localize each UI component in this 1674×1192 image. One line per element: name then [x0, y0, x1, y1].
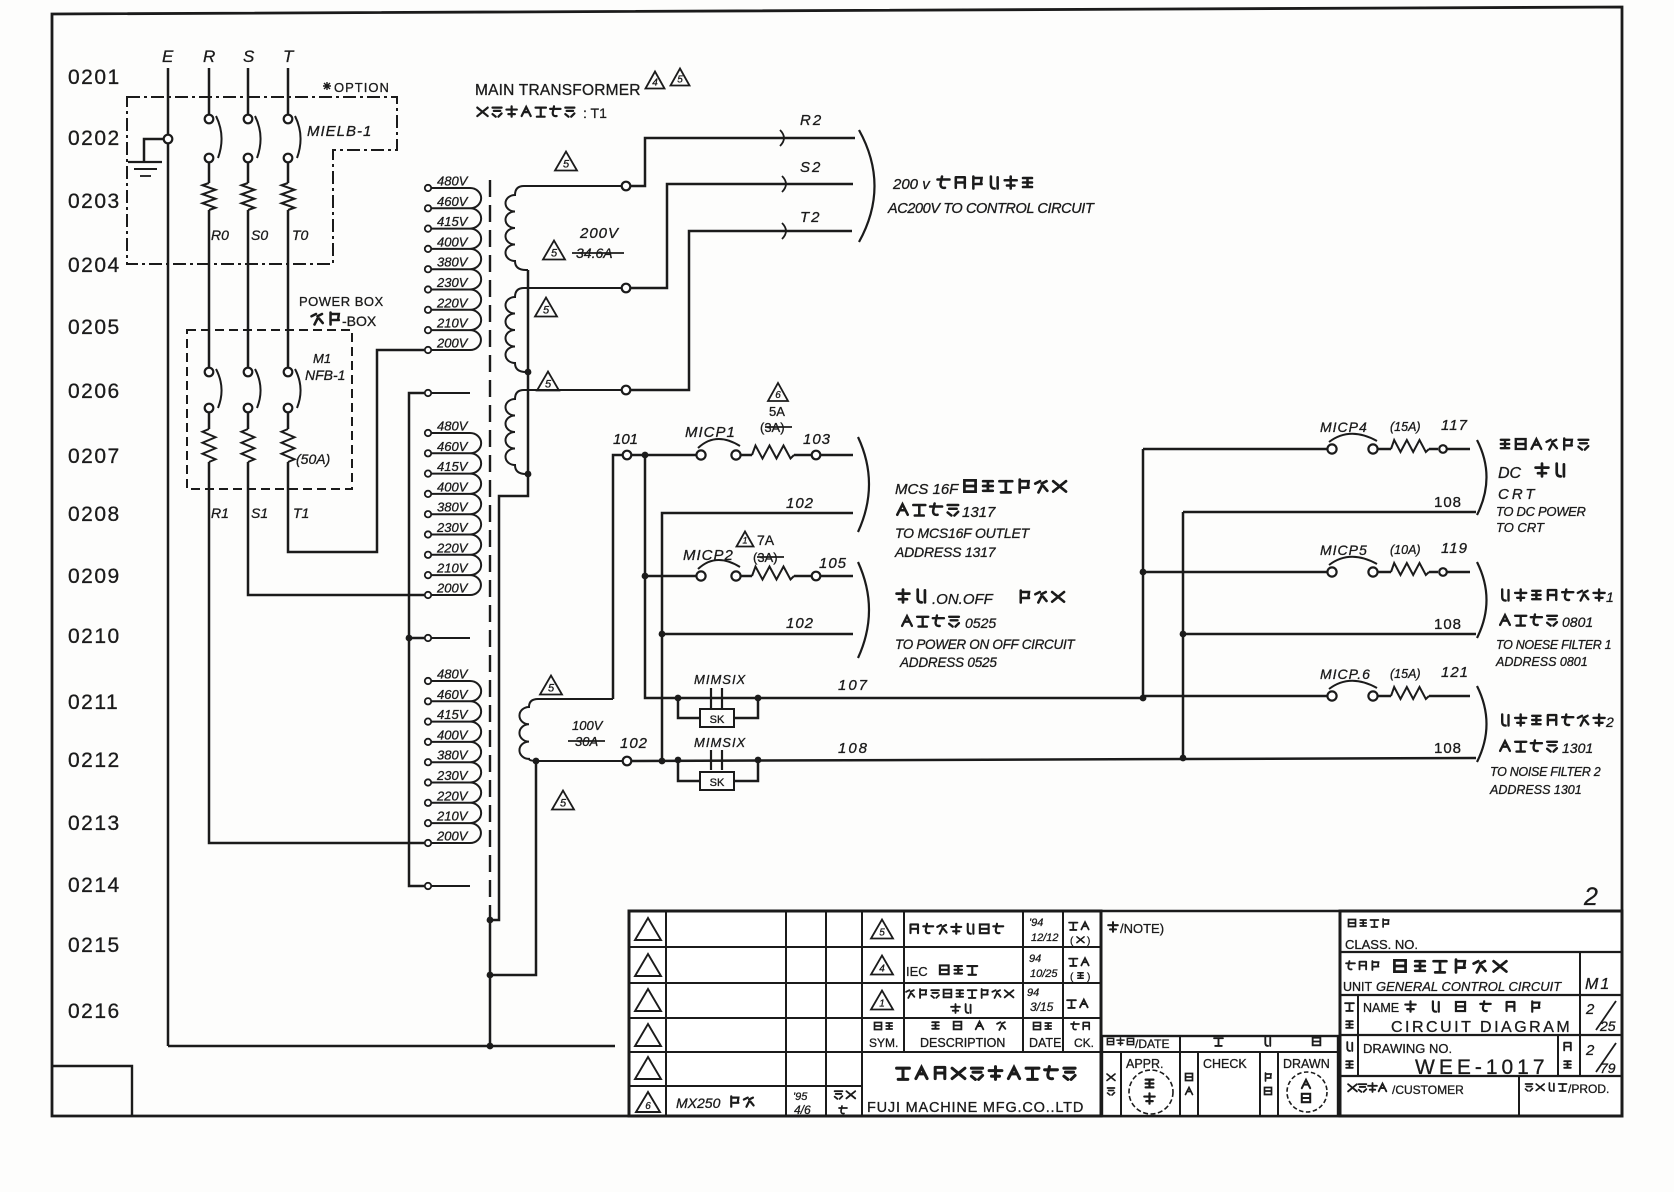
transformer T1 secondary winding S4 (100V) — [519, 699, 622, 761]
label 103 — [803, 431, 831, 448]
wire 108 return 2 — [1183, 633, 1476, 636]
transformer T1 secondary winding S1 (R2 200V) — [506, 186, 627, 270]
svg-text:102: 102 — [786, 615, 814, 632]
heading katakana main transformer : T1 — [477, 105, 607, 121]
svg-text:5: 5 — [543, 305, 550, 317]
svg-text:380V: 380V — [437, 748, 469, 763]
label power box katakana — [312, 313, 377, 330]
svg-text:MCS 16F: MCS 16F — [895, 481, 959, 498]
breaker MICP4 — [1143, 434, 1470, 454]
svg-text:220V: 220V — [436, 540, 469, 555]
svg-text:4/6: 4/6 — [794, 1103, 811, 1117]
cell APPR with stamp — [1107, 1057, 1173, 1114]
drawing no row — [1346, 1041, 1616, 1079]
annotation MCS16F outlet — [894, 480, 1066, 560]
svg-text:0201: 0201 — [68, 66, 121, 89]
svg-text:CK.: CK. — [1074, 1036, 1094, 1050]
svg-text:DC: DC — [1498, 465, 1522, 482]
label 5A — [769, 404, 785, 419]
svg-text:DRAWN: DRAWN — [1283, 1057, 1330, 1071]
name row — [1345, 1001, 1616, 1036]
svg-text:MICP5: MICP5 — [1320, 542, 1368, 558]
svg-text:5: 5 — [563, 159, 570, 171]
svg-text:ADDRESS 0525: ADDRESS 0525 — [899, 655, 997, 670]
connector MIMSIX 2 — [678, 735, 758, 790]
power box (dashed) — [187, 294, 384, 489]
revision row blank triangle 2 — [635, 954, 661, 976]
svg-text:5: 5 — [560, 798, 567, 810]
breaker MICP1 — [696, 439, 853, 460]
wire primary neutral bus — [406, 393, 424, 886]
revision row 5 transformer type change — [871, 917, 1090, 947]
svg-text:400V: 400V — [437, 727, 469, 742]
bracket power on off — [858, 562, 869, 658]
breaker MICP.6 — [1143, 681, 1470, 701]
revision row blank triangle 5 — [635, 1057, 661, 1079]
svg-text:0210: 0210 — [68, 625, 121, 648]
svg-text:MIMSIX: MIMSIX — [694, 672, 747, 687]
svg-text:CRT: CRT — [1498, 486, 1538, 503]
svg-text:480V: 480V — [437, 419, 469, 434]
revision triangle 5 marker — [537, 372, 559, 391]
svg-text:(15A): (15A) — [1390, 667, 1421, 681]
svg-text:10/25: 10/25 — [1030, 968, 1058, 980]
svg-text:0209: 0209 — [68, 565, 121, 588]
wire 107 — [645, 576, 1143, 701]
wire T1 to T1 primary group-1 200V tap — [288, 350, 424, 552]
wire 102 return lower — [662, 633, 853, 636]
wire 102 return upper — [659, 513, 853, 760]
svg-text:400V: 400V — [437, 234, 469, 249]
label 101 — [613, 431, 638, 448]
label 102 upper — [786, 495, 814, 512]
svg-text:DESCRIPTION: DESCRIPTION — [920, 1036, 1005, 1050]
svg-text:CHECK: CHECK — [1203, 1057, 1247, 1071]
node T — [283, 47, 295, 66]
svg-text:94: 94 — [1029, 953, 1041, 965]
svg-text:119: 119 — [1441, 540, 1468, 557]
svg-text:(10A): (10A) — [1390, 543, 1421, 557]
svg-text:T: T — [283, 47, 295, 66]
svg-text:0215: 0215 — [68, 934, 121, 957]
svg-text:2: 2 — [1583, 883, 1598, 911]
node R — [203, 47, 215, 66]
label OPTION — [323, 80, 390, 95]
label MIELB-1 — [307, 123, 372, 140]
bracket to control circuit — [859, 130, 875, 242]
svg-text:5A: 5A — [769, 404, 785, 419]
revision row 4 IEC — [871, 953, 1090, 983]
svg-text:200V: 200V — [436, 336, 469, 351]
svg-text:/NOTE): /NOTE) — [1120, 921, 1164, 936]
label S1 — [251, 505, 268, 521]
svg-text:'94: '94 — [1029, 917, 1043, 929]
svg-text:25: 25 — [1599, 1018, 1616, 1034]
annotation noise filter 1 — [1495, 589, 1614, 669]
revision row 6 MX250 — [636, 1091, 855, 1117]
bracket noise filter 2 — [1477, 686, 1487, 762]
svg-text:POWER BOX: POWER BOX — [299, 294, 384, 309]
label 105 — [819, 555, 847, 572]
svg-text:2: 2 — [1585, 1042, 1595, 1059]
svg-text:210V: 210V — [436, 316, 469, 331]
wire right return bus — [1180, 512, 1187, 761]
label 108 r2 — [1434, 616, 1462, 633]
label S2 — [800, 159, 822, 176]
svg-text:200V: 200V — [436, 581, 469, 596]
svg-text:MICP1: MICP1 — [685, 424, 736, 441]
svg-text:/CUSTOMER: /CUSTOMER — [1392, 1083, 1464, 1097]
svg-text:101: 101 — [613, 431, 638, 448]
label (3A) struck — [760, 420, 792, 435]
svg-text:DRAWING NO.: DRAWING NO. — [1363, 1041, 1452, 1056]
svg-text:6: 6 — [775, 390, 781, 401]
bracket DC power CRT — [1477, 440, 1487, 515]
svg-text:MICP.6: MICP.6 — [1320, 666, 1371, 682]
svg-text:S0: S0 — [251, 227, 268, 243]
svg-text:ADDRESS 1317: ADDRESS 1317 — [894, 544, 997, 560]
svg-text:AC200V TO CONTROL CIRCUIT: AC200V TO CONTROL CIRCUIT — [887, 201, 1095, 217]
svg-text:FUJI MACHINE MFG.CO..LTD: FUJI MACHINE MFG.CO..LTD — [867, 1100, 1084, 1116]
svg-text:IEC: IEC — [906, 964, 928, 979]
transformer T1 secondary winding S2 (S2 200V) — [506, 288, 627, 372]
svg-text:NAME: NAME — [1363, 1001, 1399, 1015]
svg-text:230V: 230V — [436, 520, 469, 535]
svg-text:1317: 1317 — [962, 504, 996, 521]
revision table — [629, 911, 1101, 1116]
svg-text:M1: M1 — [313, 351, 331, 366]
svg-text:5: 5 — [879, 928, 885, 939]
breaker NFB-1 pole R1 — [203, 368, 222, 462]
svg-text:(50A): (50A) — [296, 451, 330, 467]
cell CHECK — [1186, 1057, 1248, 1095]
svg-text:SK: SK — [710, 777, 725, 789]
svg-text:102: 102 — [786, 495, 814, 512]
svg-text:108: 108 — [838, 740, 869, 757]
unit row — [1343, 960, 1611, 994]
svg-text:0213: 0213 — [68, 812, 121, 835]
svg-text:CIRCUIT DIAGRAM: CIRCUIT DIAGRAM — [1391, 1019, 1572, 1036]
page number 2 — [1583, 883, 1598, 911]
svg-text:4: 4 — [879, 964, 885, 975]
title info block — [1340, 911, 1622, 1116]
ground symbol — [128, 135, 172, 176]
svg-text:0801: 0801 — [1562, 614, 1593, 630]
svg-text:0205: 0205 — [68, 316, 121, 339]
svg-text:DATE: DATE — [1029, 1036, 1061, 1050]
breaker NFB-1 pole S1 — [242, 368, 261, 462]
annotation power on off circuit — [895, 590, 1076, 670]
label 200V rating — [579, 225, 620, 242]
bracket MCS16F outlet — [858, 437, 869, 532]
svg-text:5: 5 — [545, 379, 552, 391]
wire 101 feed from 100V tap — [613, 451, 696, 699]
label 107 — [838, 677, 869, 694]
svg-text:1301: 1301 — [1562, 740, 1593, 756]
company cell FUJI MACHINE — [867, 1067, 1084, 1116]
svg-text:200V: 200V — [579, 225, 620, 242]
svg-text:OPTION: OPTION — [334, 80, 390, 95]
wire secondary common bus — [487, 270, 532, 1046]
revision triangle 6 (5A) — [768, 383, 788, 401]
customer row — [1348, 1082, 1609, 1097]
svg-text:0216: 0216 — [68, 1000, 121, 1023]
svg-text:79: 79 — [1600, 1060, 1616, 1076]
svg-text:T1: T1 — [293, 505, 309, 521]
net row labels 0201-0216 — [68, 66, 121, 1023]
svg-text:105: 105 — [819, 555, 847, 572]
note cell — [1108, 921, 1164, 936]
note cell top border — [1101, 910, 1340, 913]
label R2 — [800, 112, 823, 129]
label 34.6A struck — [572, 245, 624, 261]
label (3A) struck 2 — [753, 550, 784, 565]
svg-text:2: 2 — [1605, 714, 1614, 730]
svg-text:0204: 0204 — [68, 254, 121, 277]
svg-text:5: 5 — [548, 683, 555, 695]
svg-text:MIELB-1: MIELB-1 — [307, 123, 372, 140]
svg-text:0207: 0207 — [68, 445, 121, 468]
label R1 — [211, 505, 229, 521]
svg-text:/PROD.: /PROD. — [1568, 1082, 1609, 1096]
transformer T1 primary winding group 3 — [425, 667, 481, 890]
svg-text:T2: T2 — [800, 209, 822, 226]
svg-text:: T1: : T1 — [583, 105, 607, 121]
svg-text:460V: 460V — [437, 687, 469, 702]
svg-text:-BOX: -BOX — [342, 313, 377, 329]
svg-text:380V: 380V — [437, 500, 469, 515]
svg-text:415V: 415V — [437, 459, 469, 474]
wire MICP2 feed — [642, 455, 696, 579]
svg-text:117: 117 — [1441, 417, 1468, 434]
svg-text:(15A): (15A) — [1390, 420, 1421, 434]
svg-text:230V: 230V — [436, 275, 469, 290]
breaker MICP2 — [696, 560, 853, 581]
corner box bottom-left — [52, 1066, 132, 1116]
wire 108 — [623, 757, 1476, 766]
revision triangle 5 (heading) — [671, 69, 690, 86]
label (50A) — [296, 451, 330, 467]
wire 100V bottom bus — [493, 758, 539, 975]
revision triangle 5 marker — [552, 791, 574, 810]
revision row blank triangle 1 — [635, 918, 661, 940]
svg-text:220V: 220V — [436, 788, 469, 803]
svg-text:7A: 7A — [757, 532, 775, 548]
svg-text:NFB-1: NFB-1 — [305, 367, 345, 383]
svg-text:/DATE: /DATE — [1135, 1037, 1169, 1051]
svg-text:0214: 0214 — [68, 874, 121, 897]
approval block — [1102, 1036, 1338, 1116]
option box MIELB-1 (dash-dot) — [127, 97, 397, 264]
bracket noise filter 1 — [1477, 562, 1487, 638]
label MICP4 — [1320, 417, 1468, 435]
label 108 r1 — [1434, 494, 1462, 511]
svg-text:MICP2: MICP2 — [683, 547, 734, 564]
transformer T1 core (dashed) — [489, 180, 491, 918]
svg-text:415V: 415V — [437, 214, 469, 229]
svg-text:5: 5 — [551, 248, 558, 260]
svg-text:GENERAL CONTROL CIRCUIT: GENERAL CONTROL CIRCUIT — [1376, 979, 1562, 994]
breaker NFB-1 pole T1 — [282, 368, 301, 462]
wire S2 output — [622, 176, 853, 292]
transformer T1 secondary winding S3 (T2 200V) — [506, 390, 627, 474]
svg-text:460V: 460V — [437, 194, 469, 209]
svg-text:0525: 0525 — [965, 615, 996, 631]
svg-text:.ON.OFF: .ON.OFF — [932, 591, 994, 608]
annotation 200V to control circuit — [887, 176, 1095, 217]
svg-text:210V: 210V — [436, 561, 469, 576]
svg-text:480V: 480V — [437, 174, 469, 189]
connector MIMSIX 1 — [678, 672, 758, 727]
label MICP5 — [1320, 540, 1468, 558]
revision triangle 5 marker — [540, 676, 562, 695]
svg-text:R2: R2 — [800, 112, 823, 129]
svg-text:1: 1 — [742, 536, 747, 546]
svg-text:S2: S2 — [800, 159, 822, 176]
svg-text:S1: S1 — [251, 505, 268, 521]
revision triangle 4 (heading) — [646, 72, 665, 89]
svg-text:SYM.: SYM. — [869, 1036, 898, 1050]
revision row blank triangle 3 — [635, 989, 661, 1011]
label 108 — [838, 740, 869, 757]
switch MIELB-1 pole S — [244, 68, 261, 183]
svg-text:5: 5 — [677, 75, 683, 86]
svg-text:2: 2 — [1585, 1001, 1595, 1018]
svg-text:1: 1 — [1606, 589, 1614, 605]
svg-text:MX250: MX250 — [676, 1095, 721, 1111]
breaker MICP5 — [1143, 557, 1470, 577]
svg-text:220V: 220V — [436, 295, 469, 310]
revision header row — [869, 1022, 1094, 1050]
svg-text:0206: 0206 — [68, 380, 121, 403]
label 100V rating — [572, 718, 604, 733]
svg-text:480V: 480V — [437, 667, 469, 682]
svg-text:ADDRESS 1301: ADDRESS 1301 — [1489, 783, 1582, 797]
revision triangle 1 (7A) — [737, 532, 754, 547]
svg-text:200V: 200V — [436, 829, 469, 844]
svg-text:400V: 400V — [437, 479, 469, 494]
label MICP1 — [685, 424, 736, 441]
annotation DC power CRT — [1496, 438, 1588, 535]
node E — [162, 47, 174, 66]
svg-text:102: 102 — [620, 735, 648, 752]
switch MIELB-1 pole T — [284, 68, 301, 183]
svg-text:108: 108 — [1434, 616, 1462, 633]
svg-text:MIMSIX: MIMSIX — [694, 735, 747, 750]
svg-text:0203: 0203 — [68, 190, 121, 213]
svg-text:SK: SK — [710, 714, 725, 726]
svg-text:R1: R1 — [211, 505, 229, 521]
svg-text:ADDRESS 0801: ADDRESS 0801 — [1495, 655, 1588, 669]
wire R2 output — [622, 130, 855, 190]
svg-text:3/15: 3/15 — [1030, 1000, 1054, 1014]
svg-text:S: S — [243, 47, 255, 66]
svg-text:415V: 415V — [437, 707, 469, 722]
label T1 — [293, 505, 309, 521]
wire E vertical down to ground bus — [167, 68, 170, 1046]
svg-text:WEE-1017: WEE-1017 — [1415, 1056, 1549, 1079]
label 102 lower — [786, 615, 814, 632]
label M1 — [313, 351, 331, 366]
svg-text:R: R — [203, 47, 215, 66]
svg-text:0211: 0211 — [68, 691, 119, 714]
svg-text:T0: T0 — [292, 227, 309, 243]
revision row 1 circuit protector — [871, 987, 1088, 1014]
svg-text:0208: 0208 — [68, 503, 121, 526]
svg-text:MICP4: MICP4 — [1320, 419, 1368, 435]
label 102 terminal — [620, 735, 648, 752]
label 108 r3 — [1434, 740, 1462, 757]
svg-text:UNIT: UNIT — [1343, 980, 1373, 994]
resistor S0 — [242, 183, 269, 367]
transformer T1 primary winding group 1 — [425, 174, 481, 397]
svg-text:): ) — [1087, 936, 1090, 947]
svg-text:12/12: 12/12 — [1031, 932, 1059, 944]
label T2 — [800, 209, 822, 226]
svg-text:M1: M1 — [1585, 976, 1611, 993]
revision triangle 5 marker — [543, 241, 565, 260]
wire 108 return 1 — [1183, 511, 1476, 514]
svg-text:4: 4 — [652, 78, 658, 89]
svg-text:121: 121 — [1441, 664, 1469, 681]
svg-text:TO DC POWER: TO DC POWER — [1496, 504, 1586, 519]
svg-text:108: 108 — [1434, 494, 1462, 511]
svg-text:107: 107 — [838, 677, 869, 694]
svg-text:TO POWER ON OFF CIRCUIT: TO POWER ON OFF CIRCUIT — [895, 637, 1076, 652]
svg-text:0212: 0212 — [68, 749, 121, 772]
svg-text:380V: 380V — [437, 255, 469, 270]
class no row — [1345, 919, 1418, 952]
revision triangle 5 marker — [555, 152, 577, 171]
svg-text:TO NOISE FILTER 2: TO NOISE FILTER 2 — [1490, 765, 1601, 779]
resistor R0 — [203, 183, 230, 367]
svg-text:R0: R0 — [211, 227, 229, 243]
svg-text:1: 1 — [879, 999, 885, 1010]
svg-text:APPR.: APPR. — [1126, 1057, 1164, 1071]
svg-text:TO CRT: TO CRT — [1496, 520, 1545, 535]
svg-text:'95: '95 — [793, 1091, 808, 1103]
svg-text:0202: 0202 — [68, 127, 121, 150]
svg-text:TO NOESE FILTER 1: TO NOESE FILTER 1 — [1496, 638, 1611, 652]
label 7A — [757, 532, 775, 548]
svg-text:6: 6 — [645, 1101, 651, 1112]
annotation noise filter 2 — [1489, 714, 1614, 797]
svg-text:): ) — [1087, 972, 1090, 983]
wire right feed bus — [1140, 449, 1147, 701]
main transformer heading — [475, 82, 641, 99]
node S — [243, 47, 255, 66]
wire T2 output — [622, 223, 852, 394]
label NFB-1 — [305, 367, 345, 383]
svg-text:94: 94 — [1027, 987, 1039, 999]
switch MIELB-1 pole R — [205, 68, 222, 183]
svg-text:MAIN TRANSFORMER: MAIN TRANSFORMER — [475, 82, 641, 99]
transformer T1 primary winding group 2 — [425, 419, 481, 642]
svg-text:103: 103 — [803, 431, 831, 448]
svg-text:108: 108 — [1434, 740, 1462, 757]
cell DRAWN with stamp — [1265, 1057, 1330, 1112]
revision triangle 5 marker — [535, 298, 557, 317]
svg-text:210V: 210V — [436, 809, 469, 824]
label 30A struck — [568, 734, 605, 749]
label MICP2 — [683, 547, 734, 564]
svg-text:TO MCS16F OUTLET: TO MCS16F OUTLET — [895, 525, 1031, 541]
svg-text:230V: 230V — [436, 768, 469, 783]
wire ground bus bottom — [168, 1043, 615, 1050]
svg-text:200 v: 200 v — [892, 176, 931, 193]
resistor T0 — [282, 183, 309, 367]
label MICP.6 — [1320, 664, 1469, 682]
